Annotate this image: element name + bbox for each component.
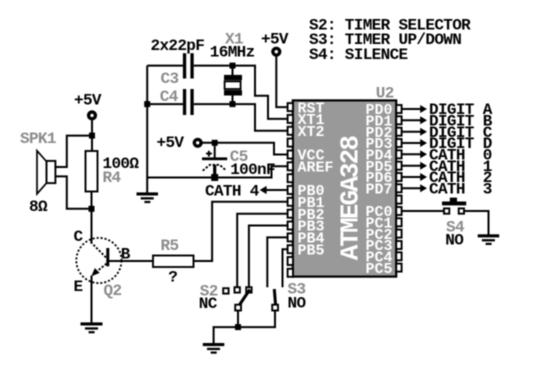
wire +5V to RST: [276, 56, 288, 107]
wire speaker bottom terminal to collector node: [55, 176, 91, 208]
wire R5 to PB1: [194, 202, 288, 261]
wire PD5 to CATH 1: [402, 162, 427, 170]
ground (S4): [478, 234, 500, 245]
svg-text:PC5: PC5: [366, 261, 393, 278]
wire PB5 to S3 right contact: [283, 249, 288, 287]
wire PD7 to CATH 3: [402, 184, 427, 192]
svg-text:C4: C4: [160, 88, 179, 106]
svg-text:PB5: PB5: [298, 242, 325, 259]
switch S3: [272, 289, 278, 311]
svg-text:NO: NO: [288, 295, 307, 313]
svg-text:C: C: [74, 228, 84, 246]
capacitor C5: [202, 143, 227, 178]
wire R4 to transistor collector: [91, 192, 93, 243]
wire PD0 to DIGIT A: [402, 105, 427, 113]
svg-text:U2: U2: [376, 84, 394, 102]
ground (rail): [137, 192, 159, 203]
wire ground rail to C5 bottom and AREF: [147, 166, 288, 177]
svg-text:AREF: AREF: [298, 160, 334, 177]
switch S2: [223, 287, 251, 310]
ground (emitter): [81, 322, 103, 333]
crystal X1: [224, 66, 242, 105]
wire crystal bottom to XT2: [233, 104, 288, 131]
svg-text:?: ?: [168, 268, 177, 286]
wire PB2 to S2 left contact: [237, 214, 288, 288]
speaker SPK1 symbol: [37, 151, 55, 194]
wire PC0 to S4: [402, 210, 444, 212]
wire PD2 to DIGIT C: [402, 128, 427, 136]
switch S4 pushbutton: [442, 198, 466, 214]
wire crystal top to XT1: [233, 66, 288, 119]
capacitor C3: [147, 53, 232, 78]
wire S3 common to ground junction: [238, 311, 275, 328]
svg-text:PD7: PD7: [366, 182, 393, 199]
svg-text:R5: R5: [161, 237, 179, 255]
resistor R4: [86, 151, 98, 192]
wire PD6 to CATH 2: [402, 173, 427, 181]
junction crystal bottom: [230, 101, 236, 107]
svg-text:SPK1: SPK1: [20, 130, 56, 148]
wire PD1 to DIGIT B: [402, 116, 427, 124]
resistor R5: [153, 256, 194, 268]
transistor Q2: [76, 238, 121, 283]
junction C5 bottom: [211, 174, 218, 181]
U2 right pin stubs: [396, 105, 401, 272]
wire emitter to ground: [91, 276, 93, 323]
junction node +5V/speaker/R4: [89, 133, 95, 139]
wire PD3 to DIGIT D: [402, 139, 427, 147]
ground rail wire (left of crystal): [146, 66, 148, 193]
svg-text:C3: C3: [161, 70, 179, 88]
svg-text:S4: SILENCE: S4: SILENCE: [309, 46, 408, 64]
svg-text:E: E: [74, 278, 83, 296]
junction C4 at rail: [144, 101, 150, 107]
junction C5 top: [212, 140, 218, 146]
svg-text:+5V: +5V: [157, 134, 185, 152]
svg-text:Q2: Q2: [104, 282, 122, 300]
svg-text:ATMEGA328: ATMEGA328: [335, 136, 365, 261]
net label CATH 4 with arrow: [205, 182, 288, 200]
svg-text:+5V: +5V: [74, 92, 102, 110]
wire PD4 to CATH 0: [402, 150, 427, 158]
U2 left pin stubs: [288, 103, 293, 277]
wire S2 common to ground junction: [214, 311, 238, 344]
junction crystal top: [230, 63, 236, 69]
junction switches ground: [235, 324, 241, 330]
svg-text:CATH 4: CATH 4: [205, 182, 260, 200]
svg-text:CATH 3: CATH 3: [429, 181, 492, 199]
capacitor C4: [147, 89, 232, 115]
svg-text:R4: R4: [103, 169, 122, 187]
+5V supply (RST): [261, 31, 289, 55]
wire junction to speaker top terminal: [55, 136, 92, 167]
svg-text:2x22pF: 2x22pF: [151, 37, 205, 55]
+5V supply (speaker branch): [74, 92, 102, 119]
wire base to R5: [109, 260, 153, 262]
svg-text:8Ω: 8Ω: [29, 198, 48, 216]
ground (switches): [203, 343, 225, 354]
wire +5V down to R4: [91, 120, 93, 151]
wire S4 to ground: [464, 211, 489, 235]
wire PB4 to S3 left contact: [267, 237, 288, 287]
wire +5V to VCC pin: [202, 143, 287, 155]
svg-text:NC: NC: [199, 295, 218, 313]
+5V supply (VCC): [157, 134, 202, 152]
svg-text:16MHz: 16MHz: [210, 43, 255, 61]
junction collector node: [89, 206, 95, 212]
svg-text:+5V: +5V: [261, 31, 289, 49]
wire PB3 to S2 right contact: [249, 226, 288, 288]
op IC U2 body ATMEGA328: [293, 100, 396, 276]
svg-text:NO: NO: [445, 232, 464, 250]
svg-text:XT2: XT2: [298, 124, 325, 141]
